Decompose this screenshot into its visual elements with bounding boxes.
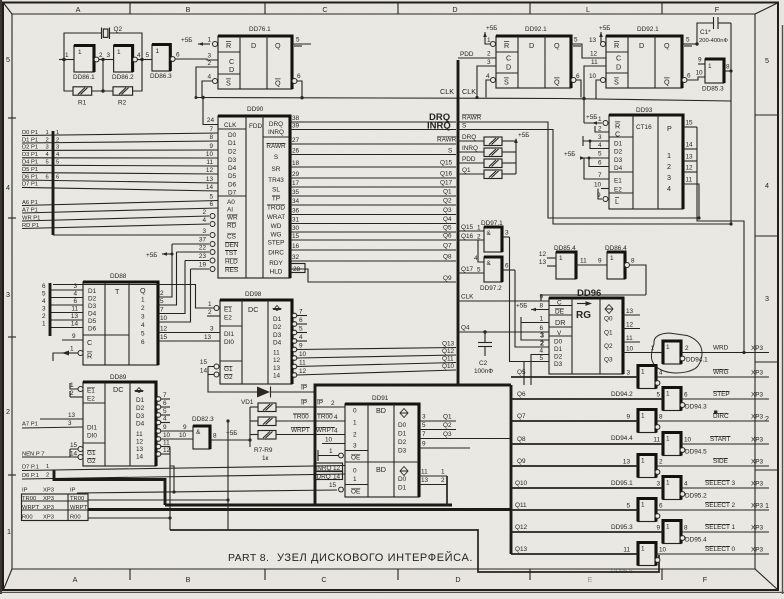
svg-text:E: E (588, 575, 593, 584)
svg-text:3: 3 (141, 314, 145, 321)
svg-text:S: S (462, 123, 466, 130)
svg-text:INRQ: INRQ (462, 145, 478, 152)
wire oscillator input stub node 1 (59, 52, 74, 61)
svg-text:4: 4 (6, 183, 10, 192)
svg-text:11: 11 (163, 440, 170, 447)
svg-text:E1: E1 (614, 178, 622, 185)
svg-text:D2: D2 (614, 149, 623, 156)
buffer DD94.2 (611, 366, 660, 399)
svg-text:13: 13 (539, 259, 547, 266)
svg-text:10: 10 (206, 151, 214, 158)
svg-text:Q10: Q10 (442, 363, 455, 370)
svg-text:6: 6 (163, 400, 167, 407)
inverter DD86.3 (150, 45, 175, 81)
wire DD89 outputs down vertical (169, 447, 171, 531)
svg-text:INRQ: INRQ (268, 129, 284, 136)
svg-text:3: 3 (598, 134, 602, 141)
svg-text:CT16: CT16 (636, 124, 652, 131)
power +5B near DD88 (146, 252, 174, 259)
DD96 output Q1 pin 12 (623, 322, 640, 329)
resistor R2 (113, 87, 133, 107)
svg-text:Q4: Q4 (461, 325, 470, 332)
corner diagonal top-left (4, 3, 13, 14)
DD93 pin 3 wire with tack (583, 134, 609, 146)
DD93 pin 1 bubble +5B (584, 114, 608, 126)
DD94.3 row STEP (511, 391, 769, 399)
scan page edge bottom (0, 592, 784, 593)
svg-text:4: 4 (334, 414, 338, 421)
svg-text:13: 13 (686, 154, 694, 161)
svg-text:R: R (87, 352, 92, 361)
svg-text:L: L (586, 5, 590, 14)
svg-text:XP3: XP3 (751, 547, 764, 554)
buffer DD95.1 (611, 455, 660, 488)
svg-text:SELECT 2: SELECT 2 (705, 502, 736, 509)
DD86.4 output pin 8 bubble (625, 258, 647, 296)
svg-text:3: 3 (487, 59, 491, 66)
svg-text:10: 10 (299, 351, 307, 358)
svg-text:D1 P1: D1 P1 (22, 137, 38, 143)
DD93 output pin 11 loop (683, 177, 699, 219)
resistor R9 row WRPT (250, 427, 345, 439)
resistors R7-R9 +5B bus (226, 407, 252, 447)
svg-text:S: S (614, 78, 619, 87)
wire DEN (172, 237, 215, 247)
svg-text:Q16: Q16 (461, 233, 474, 240)
DD91 pin 12 INRQ label boxed (314, 463, 343, 472)
svg-text:3: 3 (505, 230, 509, 237)
svg-text:4: 4 (137, 52, 141, 59)
svg-text:C: C (322, 5, 327, 14)
DD98 output pin 9 row Q13 (292, 341, 456, 352)
DD89 output pin 10 to DD82.3 (156, 432, 193, 441)
svg-text:Q1: Q1 (462, 167, 471, 174)
DD82.3 output pin 8 (210, 433, 250, 441)
svg-text:D3: D3 (614, 157, 623, 164)
DD90 pin 24 CLK wire (201, 96, 218, 125)
DD98 output pin 10 row Q12 (292, 348, 456, 360)
svg-text:V: V (557, 330, 562, 337)
svg-text:26: 26 (292, 148, 300, 155)
svg-text:Q13: Q13 (515, 546, 528, 553)
svg-text:RES: RES (225, 267, 238, 274)
svg-text:SIDE: SIDE (713, 458, 728, 465)
svg-text:10: 10 (179, 432, 187, 439)
svg-text:6: 6 (42, 283, 46, 290)
svg-text:D1: D1 (273, 316, 282, 323)
svg-text:22: 22 (199, 245, 207, 252)
svg-text:Q0: Q0 (604, 316, 613, 323)
svg-text:D3 P1: D3 P1 (22, 152, 38, 158)
top zone ticks (130, 3, 662, 15)
gate DD97.2 (480, 257, 502, 292)
svg-text:DE: DE (555, 309, 564, 316)
wire node 2-3 (99, 52, 114, 60)
svg-text:1: 1 (7, 527, 11, 536)
capacitor C1 (697, 17, 731, 44)
svg-text:1к: 1к (262, 455, 269, 462)
svg-text:12: 12 (206, 167, 214, 174)
svg-text:4: 4 (334, 428, 338, 435)
svg-text:XP3: XP3 (43, 488, 54, 494)
svg-text:Q1: Q1 (443, 414, 452, 421)
svg-text:12: 12 (163, 447, 171, 454)
buffer DD95.4 (663, 521, 707, 544)
diode VD1 (208, 375, 315, 407)
svg-text:1: 1 (56, 130, 59, 136)
DD93 pin 5 wire +5B (564, 151, 609, 160)
svg-text:2: 2 (540, 339, 544, 348)
svg-text:2: 2 (598, 126, 602, 133)
svg-text:E2: E2 (87, 396, 95, 403)
svg-text:TR00: TR00 (293, 414, 309, 421)
svg-text:2: 2 (46, 473, 49, 479)
DD97.1 input Q16 pin 2 (458, 233, 484, 241)
wire DD86.4 loop to DD96 (541, 295, 646, 301)
svg-text:S: S (448, 148, 452, 155)
resistor R1 (73, 87, 92, 107)
svg-text:13: 13 (273, 365, 281, 372)
DD89 pin 13 DI1 wire (40, 412, 83, 419)
svg-text:Q: Q (554, 41, 560, 50)
svg-text:DI1: DI1 (87, 425, 97, 432)
svg-text:12: 12 (686, 165, 694, 172)
corner diagonal bottom-right (755, 569, 778, 590)
svg-text:14: 14 (71, 321, 79, 328)
svg-text:PART 8.: PART 8. (228, 552, 269, 564)
svg-text:Q9: Q9 (517, 458, 526, 465)
svg-text:11: 11 (580, 258, 587, 265)
svg-text:XP3: XP3 (751, 370, 764, 377)
svg-text:BD: BD (376, 465, 386, 474)
DD90 output row WD pin 31 (290, 216, 456, 224)
DD97.2 output pin 6 (502, 263, 515, 271)
svg-text:D0: D0 (554, 339, 563, 346)
gate DD82.3 (192, 416, 214, 449)
DD90 output row TP pin 35 (290, 189, 456, 197)
svg-text:0: 0 (353, 408, 357, 415)
bus wire A7 P1 (22, 201, 218, 213)
DD91 output pin 11 row (419, 469, 447, 477)
svg-text:D: D (639, 41, 644, 50)
svg-text:7: 7 (598, 172, 602, 179)
svg-text:+5Б: +5Б (146, 252, 157, 259)
svg-text:XP3: XP3 (751, 392, 764, 399)
svg-text:11: 11 (653, 437, 660, 444)
svg-text:1: 1 (667, 151, 671, 160)
DD90 internal left labels D0-D7 (228, 132, 237, 197)
svg-text:5: 5 (422, 422, 426, 429)
svg-text:Q12: Q12 (515, 524, 528, 531)
svg-text:5: 5 (163, 408, 167, 415)
svg-text:DD92.1: DD92.1 (525, 26, 547, 33)
frame letters top (76, 5, 720, 14)
svg-text:SR: SR (272, 166, 281, 173)
svg-text:D6: D6 (228, 182, 237, 189)
svg-text:1: 1 (477, 225, 481, 232)
svg-text:13: 13 (204, 334, 212, 341)
svg-text:DD95.1: DD95.1 (611, 480, 633, 487)
DD76.1 pin 4 bubble and wire (202, 74, 218, 98)
svg-text:DD85.3: DD85.3 (702, 86, 724, 93)
DD96 pin 4 D2 wire (531, 348, 549, 386)
svg-text:6: 6 (505, 263, 509, 270)
svg-text:1: 1 (539, 316, 543, 323)
DD85.3 output pin 8 (724, 64, 733, 73)
DD90 output row RAWR pin 27 (290, 137, 457, 145)
DD76.1 output Qbar pin 6 bubble (292, 73, 302, 97)
flip-flop DD92.1 second (606, 26, 682, 88)
svg-text:15: 15 (329, 482, 337, 489)
svg-text:SELECT 3: SELECT 3 (705, 480, 736, 487)
svg-text:1: 1 (70, 346, 74, 353)
svg-text:2: 2 (667, 162, 671, 171)
frame letters bottom (73, 575, 708, 584)
svg-text:2: 2 (441, 477, 445, 484)
DD88 output pin 2 (158, 244, 172, 297)
DD88 output pin 5 (158, 252, 177, 305)
DD90 output row STEP pin 15 (290, 233, 456, 241)
svg-text:DD95.2: DD95.2 (685, 493, 707, 500)
svg-text:RAWR: RAWR (437, 137, 457, 144)
svg-text:TR43: TR43 (268, 177, 284, 184)
svg-text:D7 P.1: D7 P.1 (22, 464, 39, 470)
svg-text:Q9: Q9 (443, 275, 452, 282)
FDD controller DD90 box (218, 106, 290, 278)
DD97.2 input pin 4 (474, 240, 484, 262)
svg-text:6: 6 (299, 317, 303, 324)
svg-text:34: 34 (292, 198, 300, 205)
svg-text:INRQ: INRQ (427, 121, 451, 132)
svg-text:DD89: DD89 (110, 374, 127, 381)
svg-text:30: 30 (292, 225, 300, 232)
svg-text:XP3: XP3 (751, 481, 764, 488)
DD93 pin 7 wire (584, 158, 609, 179)
DD91 pin 2 IP label (317, 400, 335, 408)
svg-text:35: 35 (292, 189, 300, 196)
gate DD97.1 (481, 220, 503, 252)
svg-text:15: 15 (160, 334, 168, 341)
svg-text:D0 P1: D0 P1 (22, 130, 38, 136)
svg-text:5: 5 (141, 331, 145, 338)
svg-text:Q: Q (275, 79, 281, 88)
svg-text:E2: E2 (224, 315, 232, 322)
svg-text:HLD: HLD (270, 269, 283, 276)
svg-text:WR P1: WR P1 (22, 215, 40, 221)
svg-text:Q5: Q5 (443, 225, 452, 232)
buffer DD95.3 (611, 499, 660, 532)
svg-text:2: 2 (331, 400, 335, 407)
svg-text:T: T (115, 287, 120, 296)
buffer DD95.2 (663, 477, 707, 500)
svg-text:DRQ: DRQ (462, 134, 476, 141)
DD91 pin 4 TR00 label (317, 414, 338, 422)
svg-text:3: 3 (208, 53, 212, 60)
svg-text:15: 15 (70, 442, 78, 449)
svg-text:Q: Q (664, 41, 670, 50)
DD92.1a pin 4 bubble wire (486, 73, 496, 98)
svg-text:10: 10 (626, 346, 634, 353)
DD92.1b pin 11 wire (582, 59, 606, 123)
thick wire WRPT row (88, 508, 511, 511)
svg-text:+5Б: +5Б (564, 151, 575, 158)
svg-text:Q8: Q8 (443, 254, 452, 261)
svg-text:2: 2 (46, 137, 49, 143)
DD98 output pin 11 row Q11 (292, 356, 456, 369)
DD96 pin 8 +5B (516, 303, 549, 312)
svg-text:14: 14 (136, 454, 144, 461)
svg-text:29: 29 (292, 171, 300, 178)
bus wire D3 P1 (22, 151, 218, 158)
svg-text:2: 2 (202, 209, 206, 216)
svg-text:3: 3 (107, 52, 111, 59)
DD89 output pin 12 (156, 447, 170, 456)
svg-text:FDD: FDD (249, 123, 263, 130)
label NEN P7 boxed (22, 452, 70, 458)
svg-text:УЗЕЛ ДИСКОВОГО ИНТЕРФЕЙСА.: УЗЕЛ ДИСКОВОГО ИНТЕРФЕЙСА. (277, 551, 473, 564)
svg-text:5: 5 (209, 194, 213, 201)
svg-text:DD86.1: DD86.1 (73, 74, 95, 81)
scan page edge left (0, 0, 2, 594)
svg-text:1: 1 (610, 255, 614, 262)
svg-text:XP3: XP3 (43, 505, 54, 511)
svg-text:D: D (529, 41, 534, 50)
svg-text:12: 12 (590, 51, 598, 58)
DD90 internal right labels (266, 121, 286, 276)
svg-text:0: 0 (353, 468, 357, 475)
svg-text:28: 28 (293, 266, 301, 273)
svg-text:1: 1 (666, 344, 670, 351)
svg-text:DD86.2: DD86.2 (112, 74, 134, 81)
svg-text:14: 14 (273, 373, 281, 380)
svg-text:32: 32 (292, 254, 300, 261)
svg-text:DI1: DI1 (224, 331, 234, 338)
svg-text:IP: IP (70, 488, 76, 494)
svg-text:2: 2 (477, 234, 481, 241)
DD90 output row SR pin 18 (290, 160, 456, 168)
DD96 pin 5 D3 wire (524, 355, 549, 385)
svg-text:13: 13 (71, 313, 79, 320)
svg-text:1: 1 (70, 382, 74, 389)
svg-text:E1: E1 (87, 388, 95, 395)
svg-text:S: S (274, 154, 278, 161)
svg-text:G2: G2 (87, 458, 96, 465)
flip-flop DD76.1 (218, 26, 292, 89)
svg-text:Q3: Q3 (443, 431, 452, 438)
svg-text:R00: R00 (70, 514, 81, 520)
DD95.2 row SELECT 3 (511, 480, 769, 488)
svg-text:3: 3 (46, 145, 49, 151)
svg-text:Q5: Q5 (517, 369, 526, 376)
DD95.3 row SELECT 2 (511, 502, 769, 510)
svg-text:13: 13 (206, 176, 214, 183)
DD90 output row RDY pin 32 (290, 254, 456, 262)
svg-text:5: 5 (539, 355, 543, 362)
wire TST (177, 245, 216, 255)
svg-text:24: 24 (207, 117, 215, 124)
svg-text:RD P1: RD P1 (22, 223, 39, 229)
svg-text:D4 P1: D4 P1 (22, 160, 38, 166)
wire row D6 P1 (22, 473, 345, 480)
svg-text:19: 19 (199, 262, 207, 269)
svg-text:Q11: Q11 (442, 356, 454, 363)
svg-text:6: 6 (576, 73, 580, 80)
svg-text:D3: D3 (273, 332, 282, 339)
svg-text:XP3: XP3 (751, 345, 764, 352)
svg-text:10: 10 (684, 437, 692, 444)
svg-text:3: 3 (667, 173, 671, 182)
svg-text:1: 1 (42, 321, 46, 328)
svg-text:WG: WG (270, 232, 281, 239)
DD90 output row WRAT pin 36 (290, 207, 456, 215)
svg-text:D6 P.1: D6 P.1 (22, 473, 39, 479)
svg-text:5: 5 (296, 37, 300, 44)
svg-text:Q2: Q2 (443, 198, 452, 205)
junction node 4-5 (140, 58, 143, 61)
svg-text:5: 5 (160, 298, 164, 305)
svg-text:17: 17 (292, 180, 300, 187)
DD96 output Q0 pin 13 (623, 308, 640, 315)
wire RD0 net (88, 516, 172, 519)
svg-text:3: 3 (6, 290, 10, 299)
wire row D7 P1 to DD91 (22, 464, 345, 471)
svg-text:G1: G1 (224, 366, 233, 373)
svg-text:A7 P1: A7 P1 (22, 422, 38, 428)
DD97.1 output pin 3 (502, 230, 510, 238)
svg-text:4: 4 (539, 348, 543, 355)
svg-text:2: 2 (6, 407, 10, 416)
svg-text:D: D (616, 63, 621, 72)
svg-text:R: R (504, 41, 509, 50)
svg-text:A7 P1: A7 P1 (22, 207, 38, 213)
svg-text:D7 P1: D7 P1 (22, 182, 38, 188)
svg-text:1: 1 (641, 458, 645, 465)
svg-text:+5Б: +5Б (586, 114, 597, 121)
wire IP net row (77, 466, 337, 494)
svg-text:7: 7 (422, 431, 426, 438)
svg-text:START: START (710, 436, 730, 443)
svg-text:2: 2 (99, 52, 103, 59)
svg-text:10: 10 (163, 432, 171, 439)
svg-text:DD95.4: DD95.4 (685, 537, 707, 544)
DD97.2 input Q17 pin 5 (458, 266, 484, 274)
svg-text:4: 4 (202, 217, 206, 224)
buffer DD91 (345, 395, 419, 497)
left zone ticks (8, 118, 16, 475)
svg-text:Q: Q (140, 286, 146, 295)
DD96 pin 9 CLK row (458, 294, 549, 302)
svg-text:Q17: Q17 (440, 180, 453, 187)
svg-text:1: 1 (708, 63, 712, 70)
DD88 pin 9 C (62, 333, 83, 340)
DD93 pin 10 stub (594, 182, 609, 189)
svg-text:&: & (196, 429, 201, 436)
svg-text:D4: D4 (614, 165, 623, 172)
thick vertical bus right x511 (510, 385, 513, 554)
svg-text:11: 11 (71, 306, 78, 313)
svg-text:1: 1 (666, 480, 670, 487)
svg-text:12: 12 (539, 251, 547, 258)
svg-text:D3: D3 (88, 303, 97, 310)
pullup resistor row INRQ (458, 145, 516, 157)
svg-text:13: 13 (136, 446, 144, 453)
bus wire D7 P1 (22, 182, 218, 191)
DD91 pin 1 OE tack (318, 448, 343, 461)
svg-text:SELECT 1: SELECT 1 (705, 524, 736, 531)
capacitor C2 (474, 330, 493, 375)
svg-text:IP: IP (317, 400, 323, 407)
power +5B to DD76.1 pin 1 (181, 37, 210, 46)
